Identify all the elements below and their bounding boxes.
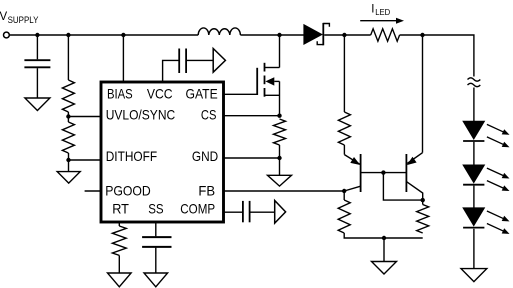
svg-text:CS: CS <box>201 107 217 123</box>
svg-text:UVLO/SYNC: UVLO/SYNC <box>106 107 176 123</box>
svg-text:BIAS: BIAS <box>107 86 133 102</box>
svg-text:RT: RT <box>112 200 129 216</box>
svg-text:GATE: GATE <box>186 86 218 102</box>
svg-text:FB: FB <box>198 182 215 198</box>
svg-text:I: I <box>371 3 374 15</box>
svg-text:LED: LED <box>375 8 390 17</box>
svg-text:V: V <box>0 11 8 23</box>
svg-text:GND: GND <box>192 148 218 164</box>
svg-text:COMP: COMP <box>180 200 215 216</box>
svg-text:VCC: VCC <box>147 86 173 102</box>
svg-text:SS: SS <box>148 200 163 216</box>
svg-text:SUPPLY: SUPPLY <box>8 15 39 25</box>
svg-text:PGOOD: PGOOD <box>105 182 151 198</box>
svg-text:DITHOFF: DITHOFF <box>106 148 158 164</box>
